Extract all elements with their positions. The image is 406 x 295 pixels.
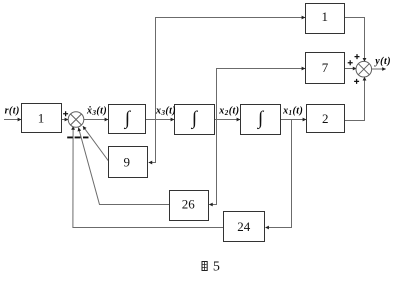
svg-text:2: 2 <box>322 111 329 126</box>
svg-text:5: 5 <box>213 260 220 275</box>
svg-text:x1(t): x1(t) <box>282 106 303 117</box>
svg-text:9: 9 <box>124 154 131 169</box>
svg-text:1: 1 <box>322 9 329 24</box>
svg-text:24: 24 <box>237 219 251 234</box>
svg-text:26: 26 <box>182 196 196 211</box>
svg-text:1: 1 <box>38 110 45 125</box>
svg-text:r(t): r(t) <box>5 106 20 117</box>
svg-text:ẋ3(t): ẋ3(t) <box>86 106 107 117</box>
svg-text:7: 7 <box>322 60 329 75</box>
svg-text:x3(t): x3(t) <box>155 106 176 117</box>
svg-text:x2(t): x2(t) <box>218 106 239 117</box>
svg-text:y(t): y(t) <box>374 56 391 67</box>
